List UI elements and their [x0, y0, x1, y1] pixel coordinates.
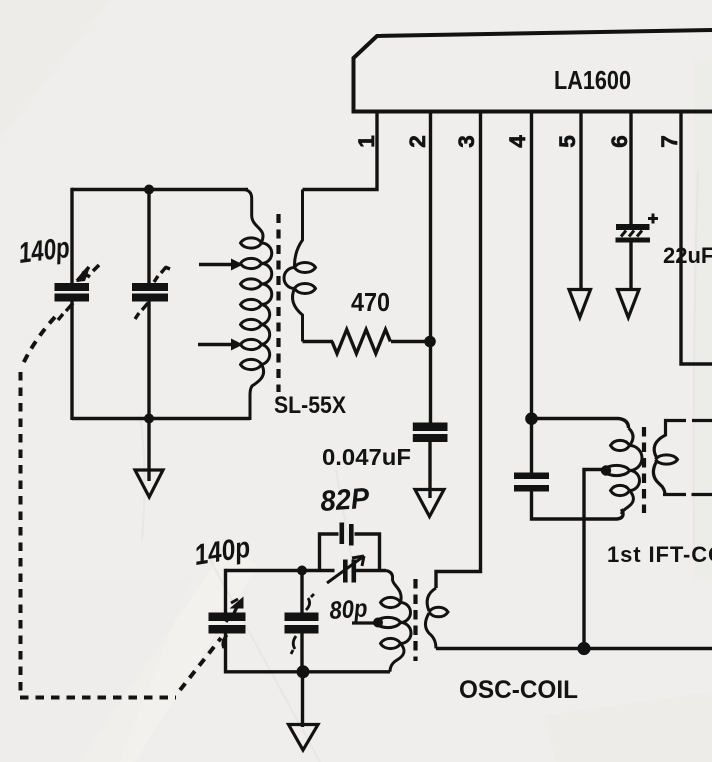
- tap: 80p to OSC coil: [352, 621, 374, 624]
- TC2 squiggles: [291, 594, 314, 654]
- capacitor C2 22uF electrolytic top plate hatched: [616, 227, 651, 240]
- 82P loop wiring: [320, 534, 380, 572]
- OSC coil primary exit: [390, 644, 404, 672]
- IFT tap dot: [601, 465, 611, 475]
- ground: pin 5: [569, 290, 591, 318]
- OSC coil primary arcs: [401, 603, 412, 644]
- IFT primary lead-in: [629, 428, 634, 446]
- ground: lower tank: [289, 725, 319, 751]
- wire: VC3 bottom lead: [224, 632, 227, 674]
- svg-text:1: 1: [354, 135, 379, 148]
- antenna coil secondary arcs: [284, 268, 295, 289]
- tap arrow lower: [198, 343, 232, 346]
- wire: VC1 bottom lead: [70, 300, 73, 420]
- pin 7: [681, 111, 712, 364]
- capacitor VC1 140p plates: [55, 283, 90, 291]
- svg-text:7: 7: [657, 135, 682, 148]
- pin 5: [579, 111, 582, 290]
- svg-text:0.047uF: 0.047uF: [322, 444, 411, 470]
- resistor R1 470: [332, 330, 390, 354]
- node: lower tank bottom junction: [297, 665, 310, 678]
- wire: IFT tap down to mixer rail: [584, 470, 606, 649]
- wire: secondary to resistor: [303, 340, 334, 343]
- svg-text:22uF: 22uF: [663, 243, 712, 268]
- capacitor C1 0.047uF plates: [413, 423, 448, 432]
- IFT primary arcs: [630, 446, 643, 491]
- annotation marks on VC2: [154, 267, 170, 282]
- core: SL-55X dashed: [276, 214, 280, 392]
- trimmer TC2 plates: [285, 613, 319, 622]
- pin 1: [303, 111, 378, 190]
- svg-text:OSC-COIL: OSC-COIL: [459, 676, 578, 704]
- pin 3: [436, 111, 481, 588]
- lower tank bottom rail: [226, 670, 391, 673]
- svg-text:6: 6: [607, 135, 632, 148]
- capacitor C3 top lead: [530, 419, 533, 474]
- wire: antenna tank bottom rail: [72, 417, 250, 420]
- IFT secondary exit: [653, 462, 712, 495]
- antenna coil L1 primary arcs: [262, 243, 272, 365]
- capacitor C3 plates: [514, 473, 549, 480]
- wire: antenna tank top rail: [72, 188, 248, 191]
- VC3 arrow: [223, 607, 237, 648]
- capacitor 82P plates: [340, 523, 345, 545]
- capacitor VC2 plates: [132, 283, 168, 291]
- ground: antenna tank: [135, 470, 163, 497]
- lower tank: top rail: [226, 569, 335, 572]
- antenna coil L1 primary loops: [241, 238, 262, 370]
- wire: left branch down to VC1: [70, 188, 73, 284]
- wire: cap to ground: [428, 441, 431, 498]
- IFT secondary loop: [656, 455, 678, 464]
- trimmer TC1 arrow: [327, 556, 364, 583]
- plus sign 22uF: [648, 214, 658, 224]
- pin 6: [629, 111, 632, 290]
- svg-text:1st IFT-COIL: 1st IFT-COIL: [607, 542, 712, 567]
- IFT primary exit: [622, 491, 634, 515]
- wire: C3 bottom to IFT primary bottom: [532, 491, 624, 519]
- antenna coil secondary exit: [292, 289, 302, 342]
- wire: TC2 bottom lead: [300, 632, 303, 672]
- wire: to ground: [147, 419, 150, 482]
- svg-text:3: 3: [454, 135, 479, 148]
- antenna coil secondary top lead: [294, 190, 302, 268]
- antenna coil secondary loops: [295, 263, 316, 294]
- svg-text:SL-55X: SL-55X: [274, 392, 346, 419]
- lower tank left leg: [224, 569, 227, 613]
- pin 4: [530, 111, 533, 419]
- svg-text:80p: 80p: [328, 594, 368, 625]
- ground: 0.047uF: [415, 490, 444, 517]
- svg-text:LA1600: LA1600: [554, 65, 631, 95]
- node: tap rail junction: [577, 642, 590, 655]
- pin 2: [429, 111, 432, 423]
- wire: trimmer to OSC coil: [356, 569, 386, 572]
- wire: resistor to pin2 node: [391, 340, 431, 343]
- trimmer TC1 plates in top rail: [343, 560, 348, 583]
- wire: pin4 to IFT primary top: [532, 419, 629, 429]
- OSC secondary top arc: [427, 588, 436, 611]
- svg-text:82P: 82P: [319, 483, 371, 518]
- node: tank top junction: [144, 185, 154, 195]
- node: lower tank top junction: [297, 566, 307, 576]
- OSC secondary loop: [429, 607, 448, 617]
- svg-text:5: 5: [555, 135, 580, 148]
- ground: pin 6: [618, 290, 640, 318]
- node: pin2 junction: [424, 336, 436, 348]
- wire: VC2 bottom lead: [147, 300, 150, 419]
- IFT secondary top wire: [654, 421, 712, 458]
- OSC coil primary loops: [376, 597, 401, 648]
- gang dashed link: [20, 317, 221, 698]
- IFT primary loops: [604, 440, 630, 495]
- capacitor VC2 trimmer top lead: [147, 190, 150, 285]
- node: tank bottom junction: [144, 414, 154, 424]
- svg-text:4: 4: [505, 135, 530, 148]
- annotation marks on VC1: [77, 265, 99, 281]
- svg-text:2: 2: [405, 135, 430, 148]
- OSC coil primary lead-in: [386, 571, 401, 603]
- core: OSC dashed: [413, 579, 417, 661]
- OSC secondary exit: [425, 613, 436, 649]
- node: pin 4 junction: [525, 412, 538, 425]
- svg-text:140p: 140p: [17, 232, 72, 270]
- wire: OSC secondary bottom rail: [436, 647, 712, 650]
- trimmer TC2 80p top lead: [300, 571, 303, 614]
- antenna coil L1 primary exit: [250, 365, 264, 421]
- capacitor VC3 140p plates: [209, 613, 246, 622]
- tap arrow upper: [199, 263, 232, 266]
- IC U1 LA1600 outline: [352, 30, 712, 112]
- svg-text:470: 470: [351, 287, 390, 317]
- antenna coil L1 primary lead-in: [244, 190, 263, 243]
- core: IFT dashed: [642, 427, 646, 513]
- wire: to ground: [301, 672, 304, 727]
